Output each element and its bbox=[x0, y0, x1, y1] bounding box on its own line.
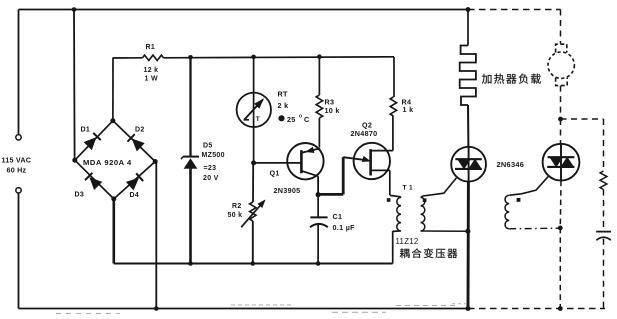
svg-text:R2: R2 bbox=[232, 203, 242, 210]
svg-text:2 k: 2 k bbox=[278, 101, 289, 110]
svg-text:60 Hz: 60 Hz bbox=[7, 166, 27, 175]
svg-text:D3: D3 bbox=[75, 192, 85, 199]
svg-text:MZ500: MZ500 bbox=[202, 152, 225, 159]
svg-text:Q1: Q1 bbox=[270, 169, 280, 178]
svg-text:T: T bbox=[256, 116, 260, 123]
svg-text:C1: C1 bbox=[333, 212, 343, 221]
svg-text:25: 25 bbox=[287, 115, 296, 124]
svg-text:D5: D5 bbox=[203, 142, 213, 149]
svg-text:11Z12: 11Z12 bbox=[396, 237, 419, 246]
svg-text:1 k: 1 k bbox=[403, 105, 414, 114]
svg-text:50 k: 50 k bbox=[228, 212, 243, 219]
svg-text:1 W: 1 W bbox=[145, 76, 158, 83]
svg-text:D2: D2 bbox=[135, 126, 145, 133]
svg-text:115 VAC: 115 VAC bbox=[2, 155, 32, 164]
svg-text:10 k: 10 k bbox=[325, 106, 340, 115]
svg-text:o: o bbox=[299, 114, 302, 120]
svg-text:MDA 920A 4: MDA 920A 4 bbox=[83, 158, 132, 167]
svg-text:0.1 µF: 0.1 µF bbox=[333, 223, 356, 232]
svg-text:2N6346: 2N6346 bbox=[497, 160, 525, 169]
svg-text:C: C bbox=[304, 115, 310, 124]
svg-text:R1: R1 bbox=[146, 44, 156, 51]
svg-text:20 V: 20 V bbox=[203, 175, 219, 182]
svg-text:T 1: T 1 bbox=[403, 185, 413, 192]
svg-text:D1: D1 bbox=[81, 126, 91, 133]
svg-text:D4: D4 bbox=[130, 192, 140, 199]
svg-text:RT: RT bbox=[278, 90, 288, 99]
svg-text:2N4870: 2N4870 bbox=[351, 129, 378, 138]
svg-text:2N3905: 2N3905 bbox=[274, 186, 301, 195]
svg-text:=23: =23 bbox=[204, 165, 217, 172]
svg-text:12 k: 12 k bbox=[144, 67, 159, 74]
